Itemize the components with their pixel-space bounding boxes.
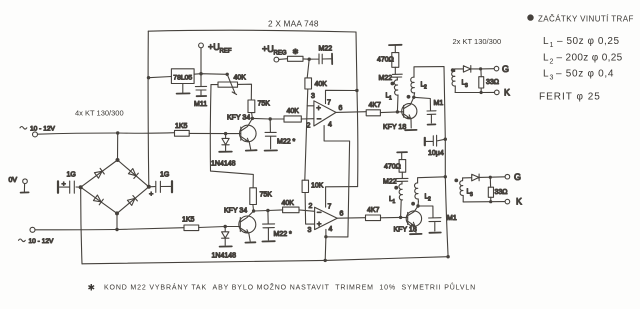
svg-text:−: − bbox=[317, 208, 322, 217]
svg-text:3: 3 bbox=[550, 75, 554, 82]
svg-text:1: 1 bbox=[550, 42, 554, 49]
svg-text:1G: 1G bbox=[67, 172, 76, 179]
capacitor M22* upper bbox=[265, 119, 276, 149]
wire rail to L2 lower bbox=[418, 177, 446, 183]
winding start dot L2 lower bbox=[411, 202, 415, 206]
svg-text:3: 3 bbox=[308, 227, 312, 234]
svg-text:78L05: 78L05 bbox=[173, 75, 192, 82]
svg-text:2: 2 bbox=[307, 123, 311, 130]
svg-text:– 50z φ 0,25: – 50z φ 0,25 bbox=[557, 36, 620, 47]
svg-text:+: + bbox=[316, 104, 321, 113]
svg-text:4x KT 130/300: 4x KT 130/300 bbox=[75, 109, 124, 118]
bridge diode D4 bottom-right arm bbox=[127, 196, 137, 206]
terminal +Ureg bbox=[274, 57, 279, 62]
transistor Q3 KFY34 lower bbox=[239, 216, 256, 233]
wire reference to upper pin3 bbox=[307, 89, 314, 106]
terminal +Uref bbox=[199, 43, 204, 48]
junction dots output upper bbox=[479, 67, 482, 70]
wire L3 top to G bbox=[455, 68, 495, 70]
wire L3 lower bottom to K bbox=[463, 201, 505, 203]
wire pot left terminal bbox=[211, 84, 218, 86]
ground for 78L05 bbox=[182, 84, 184, 93]
ground for Q4 emitter bbox=[410, 233, 422, 235]
ground for Q2 emitter bbox=[405, 129, 416, 131]
ground for Q1 emitter bbox=[246, 149, 257, 151]
svg-text:10K: 10K bbox=[311, 183, 324, 190]
wire lower pin4 to rail A bbox=[326, 229, 348, 237]
svg-text:+U: +U bbox=[208, 42, 220, 52]
svg-text:✱: ✱ bbox=[88, 283, 96, 293]
wire 1K5 to base with diode node bbox=[189, 132, 239, 134]
terminal G upper bbox=[494, 66, 499, 71]
svg-text:1N4148: 1N4148 bbox=[212, 253, 237, 260]
svg-text:33Ω: 33Ω bbox=[495, 189, 508, 196]
transistor Q1 KFY34 upper bbox=[240, 125, 257, 142]
svg-text:ZAČÁTKY VINUTÍ TRAF: ZAČÁTKY VINUTÍ TRAF bbox=[538, 15, 634, 24]
wire L2 lower to collector node bbox=[417, 202, 419, 206]
svg-text:40K: 40K bbox=[287, 108, 300, 115]
svg-text:3: 3 bbox=[311, 93, 315, 100]
winding start dot L3 lower bbox=[454, 179, 458, 183]
svg-text:7: 7 bbox=[328, 204, 332, 211]
wire lower 1K5 to base with diode node bbox=[199, 227, 239, 228]
junction dots output lower bbox=[489, 176, 492, 179]
diode 1N4148 upper bbox=[222, 134, 229, 151]
wire 40K to op-amp pin2 bbox=[301, 118, 314, 120]
svg-text:KFY 18: KFY 18 bbox=[394, 227, 417, 234]
svg-text:KOND M22 VYBRÁNY TAK ABY BYLO: KOND M22 VYBRÁNY TAK ABY BYLO MOŽNO NAST… bbox=[104, 283, 476, 292]
wire 78L05 output to pot wiper node bbox=[194, 73, 227, 76]
ground for diode upper bbox=[219, 151, 232, 153]
wire collector node lower right bbox=[254, 210, 283, 211]
svg-text:6: 6 bbox=[339, 105, 343, 112]
capacitor 1G left electrolytic bbox=[60, 181, 81, 193]
capacitor M22 at Ureg bbox=[309, 54, 331, 64]
winding start dot L2 upper bbox=[407, 95, 411, 99]
transistor Q4 KFY18 lower bbox=[406, 211, 421, 226]
wire 4K7 to Q2 base node bbox=[380, 111, 397, 114]
resistor Ureg series bbox=[288, 56, 304, 61]
terminal upper AC input bbox=[33, 132, 38, 137]
svg-text:M22: M22 bbox=[379, 75, 393, 82]
wire L3 lower top to G bbox=[463, 177, 506, 178]
resistor 33R lower bbox=[488, 187, 493, 197]
svg-text:−: − bbox=[317, 115, 322, 124]
wire 4K7 to Q4 base node bbox=[381, 216, 401, 218]
svg-text:M1: M1 bbox=[434, 100, 444, 107]
ground for M22* lower bbox=[262, 240, 274, 242]
svg-text:– 50z φ 0,4: – 50z φ 0,4 bbox=[556, 69, 614, 80]
wire 40K to U2 pin2 bbox=[299, 210, 315, 211]
bridge diode D3 bottom-left arm bbox=[93, 195, 103, 205]
svg-text:+: + bbox=[62, 179, 67, 188]
wire top +V rail bbox=[148, 30, 356, 32]
wire rail B tee to lower op-amp pin 7 bbox=[326, 187, 358, 208]
wire reference to lower pin3 bbox=[305, 193, 315, 225]
diode output lower bbox=[472, 174, 479, 181]
svg-text:1: 1 bbox=[393, 199, 396, 205]
resistor 40K upper to pin2 bbox=[284, 116, 301, 122]
winding start dot L3 upper bbox=[451, 68, 455, 72]
resistor 40K lower to pin2 bbox=[283, 207, 299, 213]
svg-text:K: K bbox=[516, 197, 522, 207]
resistor 470R upper bbox=[392, 53, 399, 68]
wire pot right terminal to 75K bbox=[238, 84, 252, 100]
wire lower pin4 junction down to bottom rail bbox=[324, 237, 327, 261]
svg-text:+: + bbox=[149, 189, 154, 198]
resistor 4K7 upper bbox=[366, 110, 380, 116]
op-amp U1 upper MAA748 bbox=[314, 101, 336, 126]
bridge diode D2 top-right arm bbox=[128, 168, 138, 178]
wire resistor to node bbox=[303, 58, 309, 60]
wire collector node to M1 lower bbox=[418, 206, 433, 217]
wire lower AC input bbox=[35, 228, 184, 230]
winding start dot L1 lower bbox=[394, 186, 398, 190]
svg-text:FERIT φ 25: FERIT φ 25 bbox=[539, 92, 601, 103]
resistor 33R upper bbox=[479, 77, 484, 88]
svg-text:2: 2 bbox=[424, 85, 427, 91]
terminal G lower bbox=[505, 174, 510, 179]
winding start dot L1 upper bbox=[391, 82, 395, 86]
inductor L2 lower bbox=[414, 183, 418, 202]
resistor 75K lower bbox=[250, 188, 257, 205]
supply tap T-bar upper 470R bbox=[389, 44, 402, 46]
wire right vertical rail bbox=[444, 67, 448, 257]
svg-text:2x KT 130/300: 2x KT 130/300 bbox=[453, 37, 502, 46]
wire upper input to bridge top node bbox=[117, 133, 119, 160]
resistor 1K5 upper bbox=[175, 130, 190, 136]
svg-text:470Ω: 470Ω bbox=[377, 57, 394, 64]
wire bridge bottom node down bbox=[116, 213, 118, 229]
wire U1 output bbox=[336, 111, 366, 114]
capacitor M11 at Uref bbox=[195, 74, 206, 95]
note winding start dot bbox=[527, 14, 533, 20]
svg-text:1G: 1G bbox=[160, 172, 169, 179]
ground for Q3 emitter bbox=[245, 241, 255, 243]
svg-text:6: 6 bbox=[340, 211, 344, 218]
svg-text:4: 4 bbox=[329, 226, 333, 233]
capacitor M22 lower L1 bbox=[396, 172, 408, 184]
capacitor M1 lower bbox=[429, 218, 441, 231]
diode 1N4148 lower bbox=[222, 227, 229, 246]
svg-text:1N4148: 1N4148 bbox=[211, 161, 236, 168]
wire pot left long run down to lower 75K bbox=[210, 85, 253, 188]
svg-text:KFY 18: KFY 18 bbox=[383, 124, 406, 131]
bridge rectifier diamond wires bbox=[81, 160, 149, 213]
wire upper AC input bbox=[37, 133, 174, 135]
svg-text:K: K bbox=[504, 88, 510, 98]
svg-text:REF: REF bbox=[220, 49, 232, 55]
svg-text:1K5: 1K5 bbox=[175, 123, 188, 130]
resistor 75K upper bbox=[248, 100, 255, 113]
svg-text:4K7: 4K7 bbox=[367, 207, 380, 214]
svg-text:L: L bbox=[543, 53, 549, 64]
inductor L3 upper bbox=[452, 69, 456, 93]
svg-text:7: 7 bbox=[327, 100, 331, 107]
wire L3 bottom to K bbox=[455, 91, 494, 93]
diode output upper bbox=[463, 66, 470, 73]
wire right supply rail B down from top bbox=[356, 32, 358, 187]
svg-text:40K: 40K bbox=[282, 200, 295, 207]
svg-text:3: 3 bbox=[470, 192, 473, 198]
svg-text:4K7: 4K7 bbox=[369, 102, 382, 109]
svg-text:+U: +U bbox=[262, 44, 274, 54]
supply tap T-bar lower 470R bbox=[397, 151, 407, 153]
wire reference continues down bbox=[305, 106, 307, 180]
svg-text:M22 *: M22 * bbox=[277, 139, 296, 146]
capacitor M22* lower bbox=[263, 211, 275, 241]
wire collector node right bbox=[252, 117, 284, 120]
wire +V rail to 78L05 input bbox=[149, 77, 172, 78]
bridge diode D1 top-left arm bbox=[94, 168, 104, 178]
svg-text:KFY 34: KFY 34 bbox=[224, 208, 247, 215]
svg-text:M11: M11 bbox=[194, 101, 207, 108]
svg-text:2 X MAA 748: 2 X MAA 748 bbox=[268, 19, 319, 29]
svg-text:M22: M22 bbox=[383, 179, 397, 186]
resistor 10K reference lower bbox=[302, 180, 308, 192]
resistor 1K5 lower bbox=[184, 225, 199, 231]
capacitor 10u4 supply bbox=[424, 138, 426, 145]
svg-text:0V: 0V bbox=[9, 177, 18, 184]
wire top jog to L2 bbox=[414, 67, 444, 78]
svg-text:M1: M1 bbox=[447, 215, 457, 222]
svg-text:4: 4 bbox=[328, 122, 332, 129]
wire Ureg node down to reference chain bbox=[307, 59, 309, 78]
bridge node dots bbox=[116, 158, 120, 162]
terminal lower AC input bbox=[30, 227, 35, 232]
svg-text:2: 2 bbox=[550, 59, 554, 66]
inductor L1 upper bbox=[394, 80, 398, 95]
svg-text:470Ω: 470Ω bbox=[384, 164, 401, 171]
svg-text:75K: 75K bbox=[258, 101, 271, 108]
svg-text:L: L bbox=[543, 36, 549, 47]
svg-text:+: + bbox=[317, 219, 322, 228]
svg-text:✱: ✱ bbox=[293, 48, 299, 56]
wire left lower rail from bridge minus node bbox=[81, 187, 82, 264]
wire bottom rail bbox=[82, 257, 448, 264]
svg-text:2: 2 bbox=[428, 197, 431, 203]
wire Ureg to resistor bbox=[279, 58, 288, 61]
svg-text:M22: M22 bbox=[319, 46, 333, 53]
svg-text:10μ4: 10μ4 bbox=[428, 150, 444, 157]
svg-text:– 200z φ 0,25: – 200z φ 0,25 bbox=[557, 53, 623, 64]
resistor 4K7 lower bbox=[366, 215, 381, 221]
wire U2 output bbox=[337, 217, 365, 220]
transistor Q2 KFY18 upper bbox=[402, 104, 417, 119]
junction dots main bbox=[116, 131, 119, 134]
inductor L1 lower bbox=[399, 184, 403, 200]
svg-text:G: G bbox=[514, 172, 521, 182]
wire upper op-amp pin 7 to rail B bbox=[326, 90, 357, 103]
svg-text:M22 *: M22 * bbox=[274, 231, 293, 238]
resistor 40K reference upper bbox=[305, 78, 312, 89]
ground for diode lower bbox=[220, 245, 232, 247]
svg-text:2: 2 bbox=[309, 203, 313, 210]
svg-text:G: G bbox=[502, 64, 509, 74]
potentiometer P1 40K body bbox=[218, 82, 238, 87]
svg-text:3: 3 bbox=[465, 83, 468, 89]
regulator U3 78L05 bbox=[171, 69, 194, 84]
capacitor M1 upper bbox=[427, 111, 436, 123]
ground for M22* upper bbox=[265, 149, 277, 151]
svg-text:10 - 12V: 10 - 12V bbox=[29, 238, 55, 245]
wire rail A upper pin4 down bbox=[324, 126, 350, 237]
inductor L3 lower bbox=[460, 178, 463, 202]
terminal K upper bbox=[495, 90, 500, 95]
inductor L2 upper bbox=[411, 77, 415, 93]
wire left +V vertical rail bbox=[147, 31, 150, 187]
wire L1 to base node bbox=[396, 95, 399, 112]
svg-text:1K5: 1K5 bbox=[182, 217, 195, 224]
svg-text:KFY 34: KFY 34 bbox=[227, 115, 250, 122]
capacitor M22 upper L1 bbox=[392, 67, 402, 80]
svg-text:75K: 75K bbox=[260, 192, 273, 199]
wire collector node to M1 bbox=[414, 97, 431, 110]
svg-text:40K: 40K bbox=[234, 75, 247, 82]
op-amp U2 lower MAA748 bbox=[315, 207, 338, 229]
wire L2 to collector node bbox=[413, 93, 416, 98]
svg-text:33Ω: 33Ω bbox=[486, 79, 499, 86]
svg-text:L: L bbox=[543, 69, 549, 80]
wire +Uref terminal down bbox=[200, 48, 202, 74]
wire L1 lower to base node bbox=[400, 200, 403, 218]
potentiometer wiper arrow bbox=[227, 75, 236, 95]
svg-text:40K: 40K bbox=[315, 81, 328, 88]
svg-text:1: 1 bbox=[389, 96, 392, 102]
svg-text:REG: REG bbox=[274, 51, 287, 57]
capacitor 1G right electrolytic bbox=[149, 181, 171, 192]
terminal K lower bbox=[505, 199, 510, 204]
svg-text:10 - 12V: 10 - 12V bbox=[30, 125, 56, 132]
resistor 470R lower bbox=[399, 160, 406, 173]
wire 75K to collector node bbox=[251, 113, 254, 119]
